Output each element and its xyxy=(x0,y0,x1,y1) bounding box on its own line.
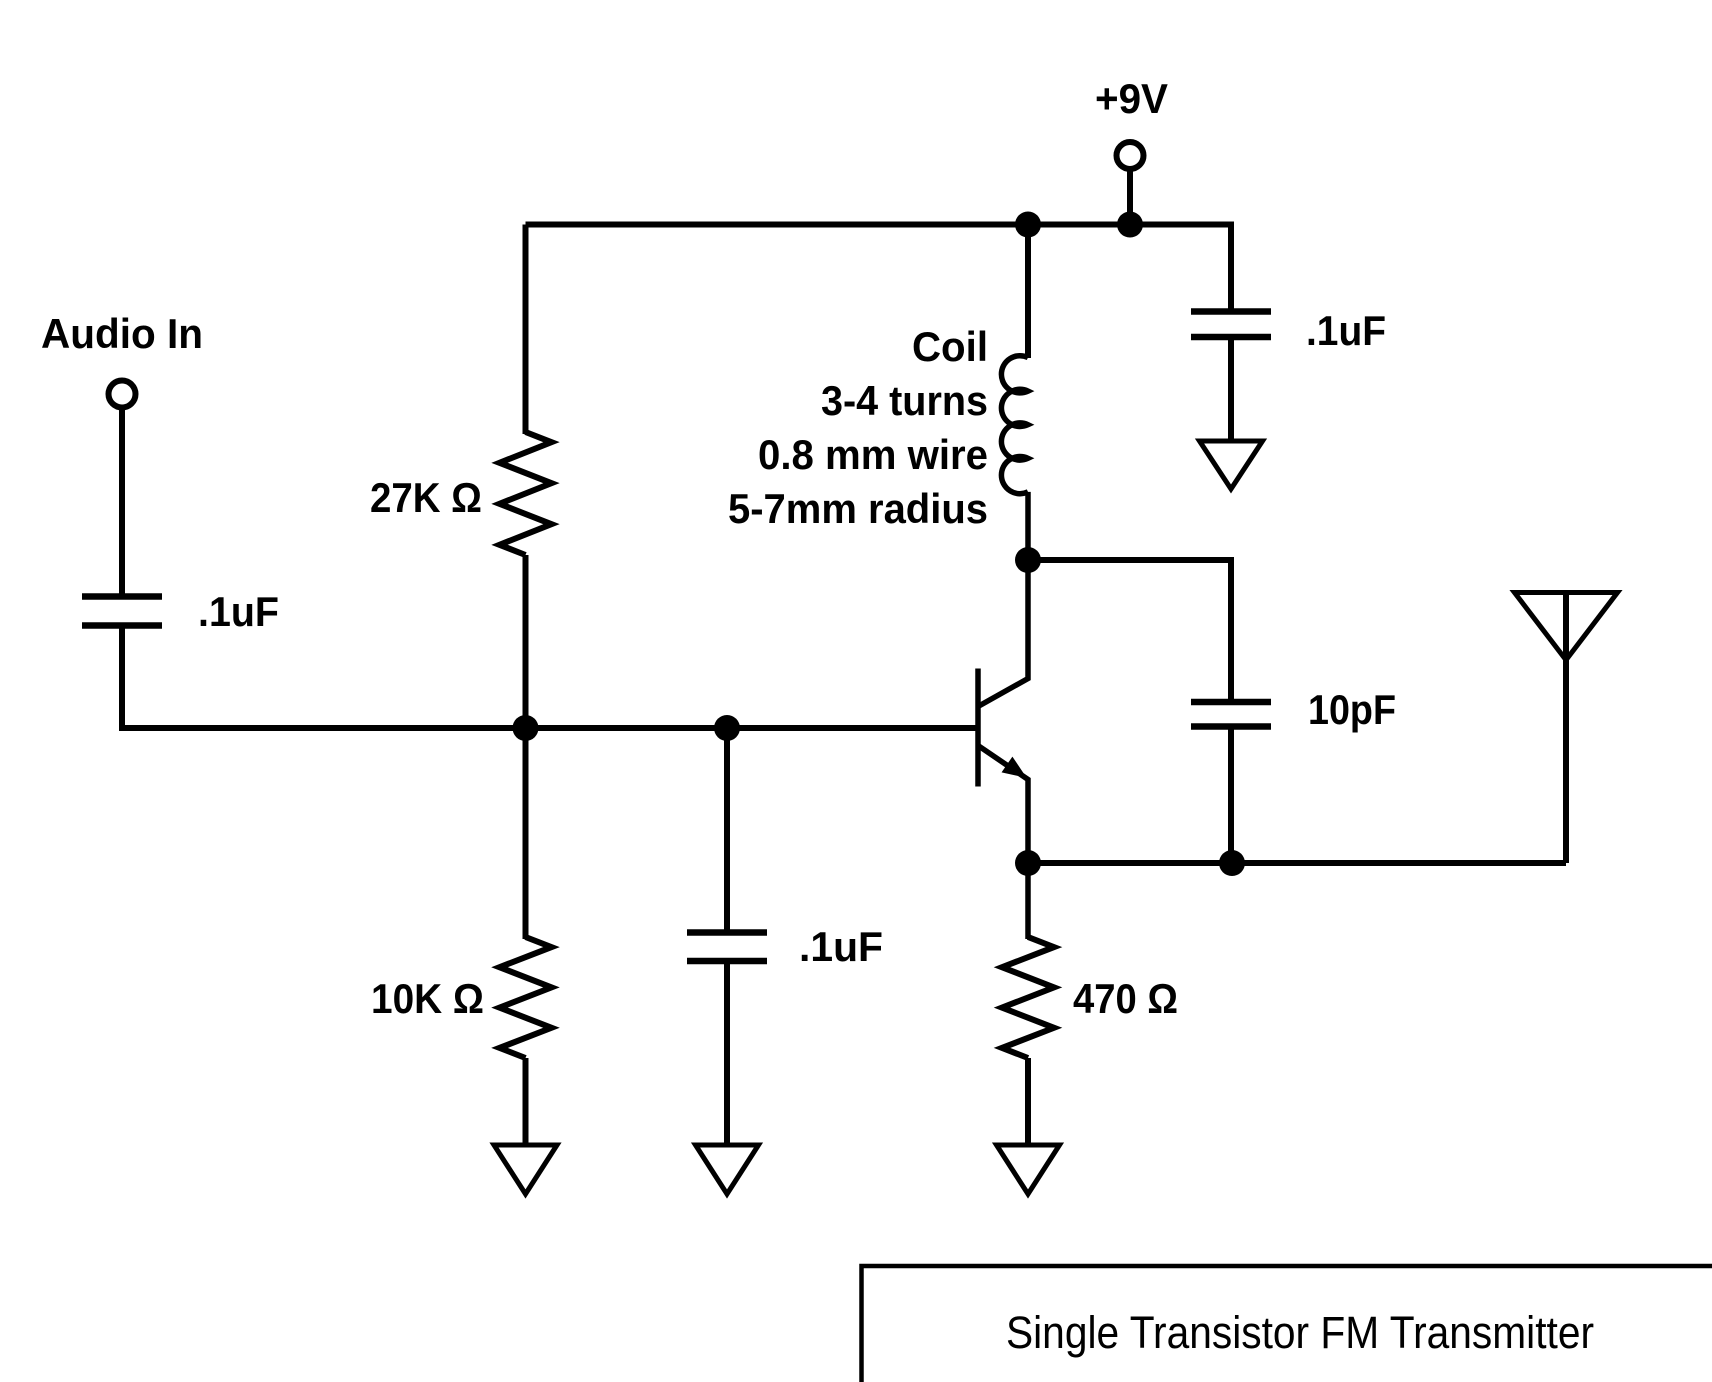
capacitor C1 .1uF coupling xyxy=(82,593,162,600)
resistor R3 470 xyxy=(1002,937,1054,1058)
node junction emitter xyxy=(1015,850,1041,876)
node junction base/bypass xyxy=(714,715,740,741)
wire R2 to ground xyxy=(523,1058,529,1146)
svg-text:10pF: 10pF xyxy=(1308,686,1396,733)
capacitor C4 10pF xyxy=(1191,699,1271,706)
wire coil to transistor collector (with collector lead) xyxy=(978,492,1028,707)
node junction top coil xyxy=(1015,212,1041,238)
svg-text:.1uF: .1uF xyxy=(799,923,883,970)
transistor Q1 emitter lead (continues down to emitter node) xyxy=(978,746,1028,940)
svg-text:10K Ω: 10K Ω xyxy=(371,975,484,1022)
svg-text:Audio In: Audio In xyxy=(41,310,203,357)
antenna mast wire xyxy=(1563,593,1569,864)
ground G2 xyxy=(494,1145,557,1194)
input terminal circle xyxy=(109,381,136,408)
svg-text:Coil: Coil xyxy=(912,323,988,370)
wire top rail xyxy=(526,222,1232,228)
svg-text:470 Ω: 470 Ω xyxy=(1073,975,1178,1022)
wire +9V stub xyxy=(1127,169,1133,225)
node junction feedback/antenna xyxy=(1219,850,1245,876)
transistor Q1 base bar xyxy=(975,669,981,787)
resistor R2 10K xyxy=(500,937,552,1058)
ground G4 xyxy=(997,1145,1060,1194)
svg-text:5-7mm radius: 5-7mm radius xyxy=(728,485,988,532)
ground G1 xyxy=(1200,441,1263,489)
wire base node to R2 xyxy=(523,728,529,939)
node junction collector/tank xyxy=(1015,547,1041,573)
svg-text:.1uF: .1uF xyxy=(1306,307,1386,354)
title box border xyxy=(862,1266,1712,1382)
svg-text:3-4 turns: 3-4 turns xyxy=(821,377,988,424)
capacitor C3 .1uF bypass xyxy=(687,929,767,936)
wire top rail left corner down to R1 xyxy=(523,225,529,435)
wire C4 to emitter rail xyxy=(1228,727,1234,864)
antenna triangle xyxy=(1515,593,1618,661)
wire C2 to ground xyxy=(1228,337,1234,442)
wire emitter rail to antenna xyxy=(1028,860,1566,866)
svg-text:.1uF: .1uF xyxy=(198,588,279,635)
wire bypass node to C3 xyxy=(724,728,730,933)
wire R3 to ground xyxy=(1025,1058,1031,1146)
wire C1 to base rail xyxy=(122,626,978,729)
capacitor C2 .1uF decoupling xyxy=(1191,308,1271,315)
svg-text:Single Transistor FM Transmitt: Single Transistor FM Transmitter xyxy=(1006,1307,1594,1358)
inductor L1 coil xyxy=(1001,356,1028,494)
svg-text:27K Ω: 27K Ω xyxy=(370,474,482,521)
wire C3 to ground xyxy=(724,961,730,1146)
node junction +9V tap xyxy=(1117,212,1143,238)
svg-text:0.8 mm wire: 0.8 mm wire xyxy=(758,431,988,478)
node junction base/bias xyxy=(513,715,539,741)
wire R1 to base node xyxy=(523,555,529,728)
wire tank node to C4 xyxy=(1028,560,1231,702)
transistor Q1 emitter arrow xyxy=(1003,758,1025,777)
resistor R1 27K xyxy=(500,432,552,555)
ground G3 xyxy=(696,1145,759,1194)
power terminal +9V circle xyxy=(1117,142,1144,169)
wire input to C1 xyxy=(119,408,125,597)
wire top-right corner down to C2 xyxy=(1228,225,1231,312)
svg-text:+9V: +9V xyxy=(1095,75,1168,122)
wire top rail to coil xyxy=(1025,225,1031,359)
